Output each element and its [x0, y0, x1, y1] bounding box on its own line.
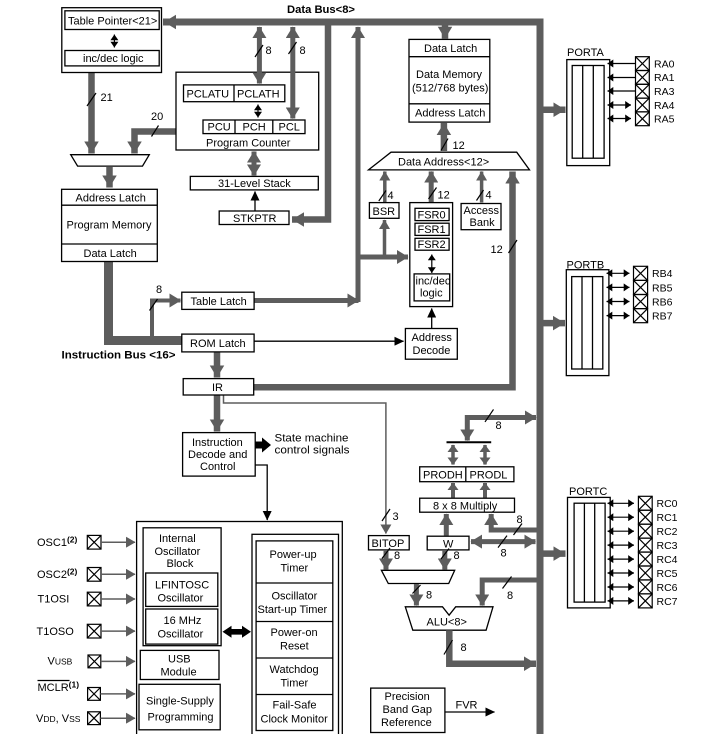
svg-text:RC5: RC5 [657, 568, 678, 580]
svg-text:PCLATU: PCLATU [187, 89, 230, 101]
svg-text:Address: Address [412, 332, 453, 344]
wire multiply to PRODL [483, 483, 487, 498]
block Table Latch [182, 292, 254, 309]
svg-text:Oscillator: Oscillator [158, 593, 204, 605]
block PRODH PRODL [420, 467, 514, 482]
svg-text:Decode and: Decode and [188, 449, 247, 461]
wire ROM Latch to Address Decode [254, 340, 403, 342]
svg-text:Oscillator: Oscillator [272, 591, 318, 603]
svg-text:12: 12 [438, 190, 450, 202]
svg-text:8: 8 [501, 548, 507, 560]
wire data bus to PCL (double arrow, 8) [290, 27, 295, 119]
svg-text:8 x 8 Multiply: 8 x 8 Multiply [433, 501, 498, 513]
wire pin RA0 [608, 63, 636, 65]
svg-text:RC4: RC4 [657, 554, 678, 566]
svg-text:ROM Latch: ROM Latch [190, 338, 246, 350]
svg-text:RB7: RB7 [652, 311, 673, 323]
svg-text:Data Latch: Data Latch [84, 248, 137, 260]
wire left vertical to STKPTR [292, 25, 328, 220]
svg-text:MCLR(1): MCLR(1) [38, 680, 80, 695]
wire mux to Address Latch [106, 167, 113, 188]
block W [427, 536, 469, 550]
svg-text:RC1: RC1 [657, 512, 678, 524]
svg-text:Address Latch: Address Latch [415, 108, 485, 120]
wire STKPTR to stack [254, 192, 256, 211]
wire bus to PORTB [544, 320, 566, 327]
wire central vertical to data bus (arrow up) [356, 27, 361, 302]
svg-text:control signals: control signals [275, 445, 351, 457]
wire branch central to FSR [358, 255, 408, 260]
pin RC1 [608, 510, 678, 524]
svg-text:RA3: RA3 [654, 86, 675, 98]
svg-text:8: 8 [266, 45, 272, 57]
block STKPTR [219, 211, 289, 225]
svg-text:8: 8 [426, 590, 432, 602]
svg-text:OSC2(2): OSC2(2) [37, 567, 78, 582]
wire bus to PORTC [544, 550, 566, 557]
wire bus to Data Latch [442, 26, 449, 39]
wire IDC to timing block [255, 465, 267, 520]
wire double arrow FSR2/incdec [431, 255, 433, 274]
block inc/dec logic 2 [414, 274, 450, 301]
svg-text:RC6: RC6 [657, 582, 678, 594]
svg-text:Bank: Bank [470, 217, 496, 229]
block Address Latch / Program Memory / Data Latch [62, 189, 158, 261]
svg-text:Fail-Safe: Fail-Safe [273, 700, 317, 712]
block Program Counter outer [176, 72, 319, 150]
wire data bus horizontal + right vertical bus [163, 22, 540, 734]
block IR [183, 379, 254, 395]
pin RB7 [607, 309, 673, 323]
block PORTC [568, 497, 611, 608]
svg-text:State machine: State machine [275, 433, 349, 445]
svg-text:PCL: PCL [279, 122, 300, 134]
svg-text:Data Memory: Data Memory [416, 69, 483, 81]
svg-text:T1OSO: T1OSO [37, 626, 75, 638]
block Data Latch / Data Memory / Address Latch [409, 39, 490, 122]
svg-text:BSR: BSR [373, 206, 396, 218]
svg-text:RC0: RC0 [657, 498, 678, 510]
pin RA4 square [636, 98, 675, 112]
svg-text:Reset: Reset [280, 641, 309, 653]
svg-text:logic: logic [420, 288, 443, 300]
wire ROM Latch to IR [214, 352, 221, 378]
wire mux to ALU (8) [414, 584, 419, 606]
wire 20-bit from Program Counter to mux [135, 132, 177, 154]
block FSR outer [410, 203, 453, 307]
pin MCLR [38, 680, 136, 701]
mux Data Address<12> [369, 152, 530, 170]
block 16 MHz Oscillator [146, 609, 218, 644]
svg-text:FSR1: FSR1 [418, 224, 446, 236]
svg-text:4: 4 [486, 190, 492, 202]
pin RC3 [608, 538, 678, 552]
svg-text:Data Bus<8>: Data Bus<8> [287, 4, 355, 16]
block ROM Latch [182, 334, 254, 352]
svg-text:FSR0: FSR0 [418, 209, 446, 221]
svg-text:Access: Access [464, 205, 500, 217]
svg-text:8: 8 [507, 590, 513, 602]
block PCU PCH PCL [203, 120, 305, 134]
svg-text:4: 4 [388, 190, 394, 202]
pin RA1 square [636, 71, 675, 85]
wire double arrow PCLATH/PCH [257, 105, 259, 118]
svg-text:8: 8 [454, 550, 460, 562]
svg-text:VUSB: VUSB [48, 656, 73, 668]
svg-text:PRODH: PRODH [423, 470, 463, 482]
svg-text:3: 3 [393, 511, 399, 523]
wire bar to PRODH (double) [451, 445, 455, 465]
wire instruction bus trunk [109, 262, 182, 341]
pin RC7 [608, 594, 678, 608]
svg-text:20: 20 [151, 111, 163, 123]
svg-text:inc/dec logic: inc/dec logic [83, 53, 144, 65]
pin RC5 [608, 566, 678, 580]
block FSR0 [415, 208, 449, 220]
arrow 16MHz to Power-on (black double) [223, 626, 252, 638]
svg-text:Control: Control [200, 461, 235, 473]
svg-text:Block: Block [167, 558, 194, 570]
pin RA3 square [636, 84, 675, 98]
svg-text:Watchdog: Watchdog [270, 664, 319, 676]
svg-text:PCLATH: PCLATH [237, 89, 280, 101]
wire multiply to PRODH [451, 483, 455, 498]
wire bus to PRODH/PRODL bar [467, 415, 536, 420]
wire bar to PRODL (double) [483, 445, 487, 465]
wire bus to PORTA [544, 106, 566, 113]
svg-text:RB4: RB4 [652, 268, 673, 280]
pin VDD VSS [36, 712, 135, 725]
wire ALU to bus (8) [449, 630, 536, 664]
svg-text:PORTA: PORTA [567, 47, 605, 59]
wire Table Latch output to central vertical [254, 298, 359, 303]
pin VUSB [48, 655, 136, 668]
wire W to multiply [444, 514, 449, 536]
svg-text:PCU: PCU [208, 122, 231, 134]
svg-text:12: 12 [491, 244, 503, 256]
mux ALU input [381, 570, 454, 583]
block BSR [369, 203, 399, 219]
svg-text:ALU<8>: ALU<8> [427, 617, 467, 629]
block Access Bank [461, 204, 501, 230]
svg-text:RB6: RB6 [652, 296, 673, 308]
wire W to bus (double, 8) [471, 539, 536, 544]
svg-text:FSR2: FSR2 [418, 239, 446, 251]
wire PC to 31-Level Stack (double arrow) [252, 152, 257, 176]
wire 8-bit branch to Table Latch [152, 301, 181, 339]
svg-text:Table Latch: Table Latch [191, 296, 247, 308]
svg-text:8: 8 [461, 642, 467, 654]
pin T1OSI [38, 592, 136, 606]
svg-text:Reference: Reference [381, 717, 432, 729]
svg-text:FVR: FVR [456, 700, 478, 712]
block inc/dec logic [65, 51, 159, 66]
wire BSR to data address mux (4) [383, 172, 387, 203]
svg-text:RC7: RC7 [657, 596, 678, 608]
svg-text:PRODL: PRODL [470, 470, 508, 482]
block PORTB [566, 270, 609, 376]
pin RC4 [608, 552, 678, 566]
svg-text:Programming: Programming [148, 712, 214, 724]
wire Address Decode to FSR [431, 309, 433, 329]
wire branch up to BSR [383, 220, 387, 257]
svg-text:Timer: Timer [281, 563, 309, 575]
block FSR1 [415, 223, 449, 235]
svg-text:Band Gap: Band Gap [383, 704, 433, 716]
wire pin RA4 [608, 104, 632, 106]
pin RB5 [607, 280, 673, 294]
wire data bus arrow into Table Pointer [164, 19, 200, 26]
pin T1OSO [37, 624, 136, 638]
svg-text:Program Memory: Program Memory [67, 220, 152, 232]
svg-text:Address Latch: Address Latch [76, 192, 146, 204]
svg-text:RA4: RA4 [654, 100, 675, 112]
svg-text:RB5: RB5 [652, 282, 673, 294]
svg-text:RC2: RC2 [657, 526, 678, 538]
pin OSC2 [37, 567, 135, 582]
wire bus to multiply (8) [491, 514, 536, 530]
wire 3-bit IR to BITOP [224, 395, 386, 534]
svg-text:RA1: RA1 [654, 72, 675, 84]
block USB Module [140, 650, 219, 679]
wire data address mux to Address Latch (12) [441, 123, 448, 151]
block Table Pointer outer [62, 8, 162, 73]
svg-text:8: 8 [156, 284, 162, 296]
svg-text:Decode: Decode [413, 345, 451, 357]
wire pin RA3 [608, 90, 636, 92]
svg-text:Program Counter: Program Counter [206, 138, 291, 150]
svg-text:21: 21 [101, 92, 113, 104]
svg-text:8: 8 [496, 420, 502, 432]
svg-text:OSC1(2): OSC1(2) [37, 535, 78, 550]
bar above PRODH/PRODL [447, 441, 492, 443]
block timing/oscillator outer [137, 522, 343, 734]
wire IR to data address mux (12) [254, 172, 513, 388]
pin RA5 square [636, 112, 675, 126]
svg-text:RC3: RC3 [657, 540, 678, 552]
wire bus to ALU (8) [482, 580, 536, 606]
block timers outer [252, 534, 339, 734]
mux program memory address [71, 155, 150, 166]
block PCLATU PCLATH [184, 85, 285, 102]
svg-text:Timer: Timer [281, 678, 309, 690]
block Precision Band Gap Reference [371, 688, 445, 732]
svg-text:31-Level Stack: 31-Level Stack [218, 178, 291, 190]
wire W to mux (8) [442, 550, 447, 570]
svg-text:12: 12 [453, 140, 465, 152]
block Table Pointer<21> [65, 11, 159, 30]
svg-text:Oscillator: Oscillator [155, 546, 201, 558]
svg-text:Data Latch: Data Latch [424, 43, 477, 55]
wire Access Bank to data address mux (4) [480, 172, 484, 203]
svg-text:Power-on: Power-on [271, 627, 318, 639]
svg-text:(512/768 bytes): (512/768 bytes) [412, 83, 488, 95]
block PORTA [567, 60, 610, 166]
svg-text:T1OSI: T1OSI [38, 594, 70, 606]
block FSR2 [415, 238, 449, 250]
block Instruction Decode and Control [183, 433, 256, 477]
svg-text:inc/dec: inc/dec [416, 276, 451, 288]
block LFINTOSC Oscillator [146, 573, 218, 606]
pin OSC1 [37, 535, 135, 550]
block Address Decode [405, 329, 457, 360]
svg-text:Instruction: Instruction [192, 437, 243, 449]
pin RC2 [608, 524, 678, 538]
svg-text:8: 8 [517, 514, 523, 526]
svg-text:IR: IR [212, 382, 223, 394]
block Single-Supply Programming [139, 684, 220, 730]
pin RA0 square [636, 57, 675, 71]
block BITOP [369, 536, 410, 550]
svg-text:Oscillator: Oscillator [158, 629, 204, 641]
svg-text:Internal: Internal [159, 533, 196, 545]
svg-text:Start-up Timer: Start-up Timer [258, 604, 328, 616]
svg-text:Clock Monitor: Clock Monitor [261, 714, 329, 726]
block 31-Level Stack [190, 176, 318, 190]
svg-text:8: 8 [394, 550, 400, 562]
pin RC6 [608, 580, 678, 594]
pin RB6 [607, 295, 673, 309]
svg-text:LFINTOSC: LFINTOSC [155, 580, 209, 592]
svg-text:VDD, VSS: VDD, VSS [36, 713, 81, 725]
svg-text:Precision: Precision [385, 691, 430, 703]
svg-text:16 MHz: 16 MHz [164, 615, 202, 627]
svg-text:Module: Module [161, 667, 197, 679]
wire data bus to PCLATU/PCLATH (double arrow, 8) [257, 27, 262, 84]
pin RB4 [607, 266, 673, 280]
svg-text:RA5: RA5 [654, 114, 675, 126]
svg-text:PORTC: PORTC [569, 486, 607, 498]
svg-text:BITOP: BITOP [372, 538, 405, 550]
wire FVR [445, 711, 495, 713]
svg-text:USB: USB [168, 654, 191, 666]
wire 21-bit from Table Pointer to mux [88, 73, 95, 154]
wire BITOP to mux (8) [384, 550, 389, 570]
wire FSR to data address mux (12) [429, 172, 434, 203]
svg-text:Data Address<12>: Data Address<12> [398, 157, 489, 169]
wire pin RA1 [608, 77, 636, 79]
arrow state machine [255, 438, 271, 453]
ALU [405, 607, 493, 630]
svg-text:Power-up: Power-up [270, 549, 317, 561]
wire double arrow table pointer/incdec [113, 35, 115, 48]
svg-text:PCH: PCH [243, 122, 266, 134]
wire IR to Instruction Decode [214, 395, 221, 432]
svg-text:Single-Supply: Single-Supply [146, 696, 214, 708]
wire pin RA5 [608, 118, 632, 120]
svg-text:8: 8 [300, 45, 306, 57]
svg-text:STKPTR: STKPTR [233, 213, 276, 225]
svg-text:RA0: RA0 [654, 58, 675, 70]
pin RC0 [608, 496, 678, 510]
block Internal Oscillator Block [143, 528, 221, 646]
block 8 x 8 Multiply [420, 498, 515, 512]
svg-text:Table Pointer<21>: Table Pointer<21> [68, 15, 157, 27]
svg-text:Instruction Bus <16>: Instruction Bus <16> [62, 350, 176, 362]
